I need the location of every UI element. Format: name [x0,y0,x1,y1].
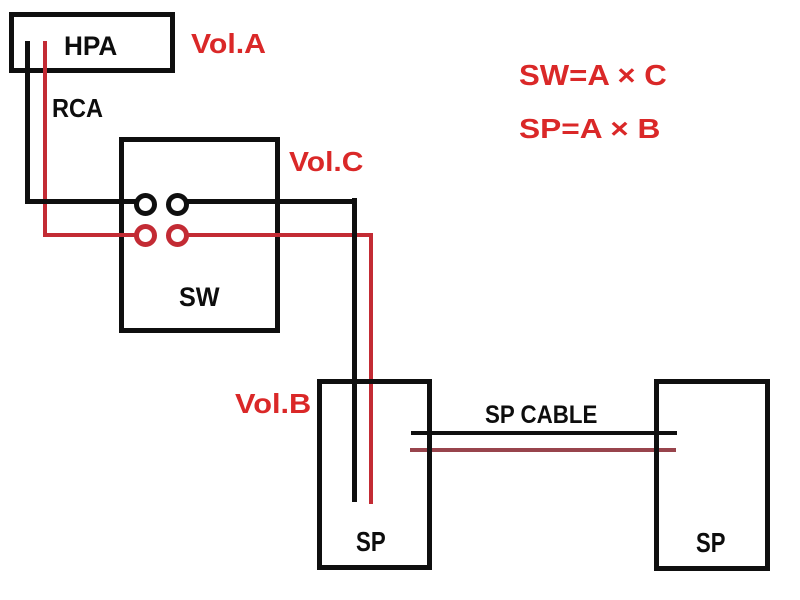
terminal black 2 [166,193,189,216]
box SW (switch) [119,137,280,333]
label SP CABLE [485,403,597,428]
terminal black 1 [134,193,157,216]
wire black vertical from HPA [25,41,30,204]
label HPA [64,33,117,60]
label SP left [356,528,386,556]
wire red horizontal HPA to SW red terminal 1 [43,233,146,238]
wire SP cable black [411,431,677,435]
label Vol.C [289,148,363,176]
label Vol.B [235,390,311,418]
wire red vertical SW to SP [369,233,374,504]
wire red horizontal SW red terminal 2 to corner [177,233,373,238]
wire black horizontal SW terminal 2 to corner [177,199,357,204]
box HPA (headphone amp) [9,12,175,73]
terminal red 1 [134,224,157,247]
wire red vertical from HPA [43,41,48,237]
label RCA [52,95,103,121]
label Vol.A [191,30,266,58]
label SW [179,284,220,311]
label SP right [696,529,725,557]
wire black horizontal HPA to SW terminal 1 [25,199,145,204]
box SP right (speaker) [654,379,770,571]
formula SW=A x C [519,62,667,91]
terminal red 2 [166,224,189,247]
box SP left (speaker) [317,379,433,570]
formula SP=A x B [519,115,660,143]
wire SP cable red [410,448,676,452]
wire black vertical SW to SP [352,198,357,502]
